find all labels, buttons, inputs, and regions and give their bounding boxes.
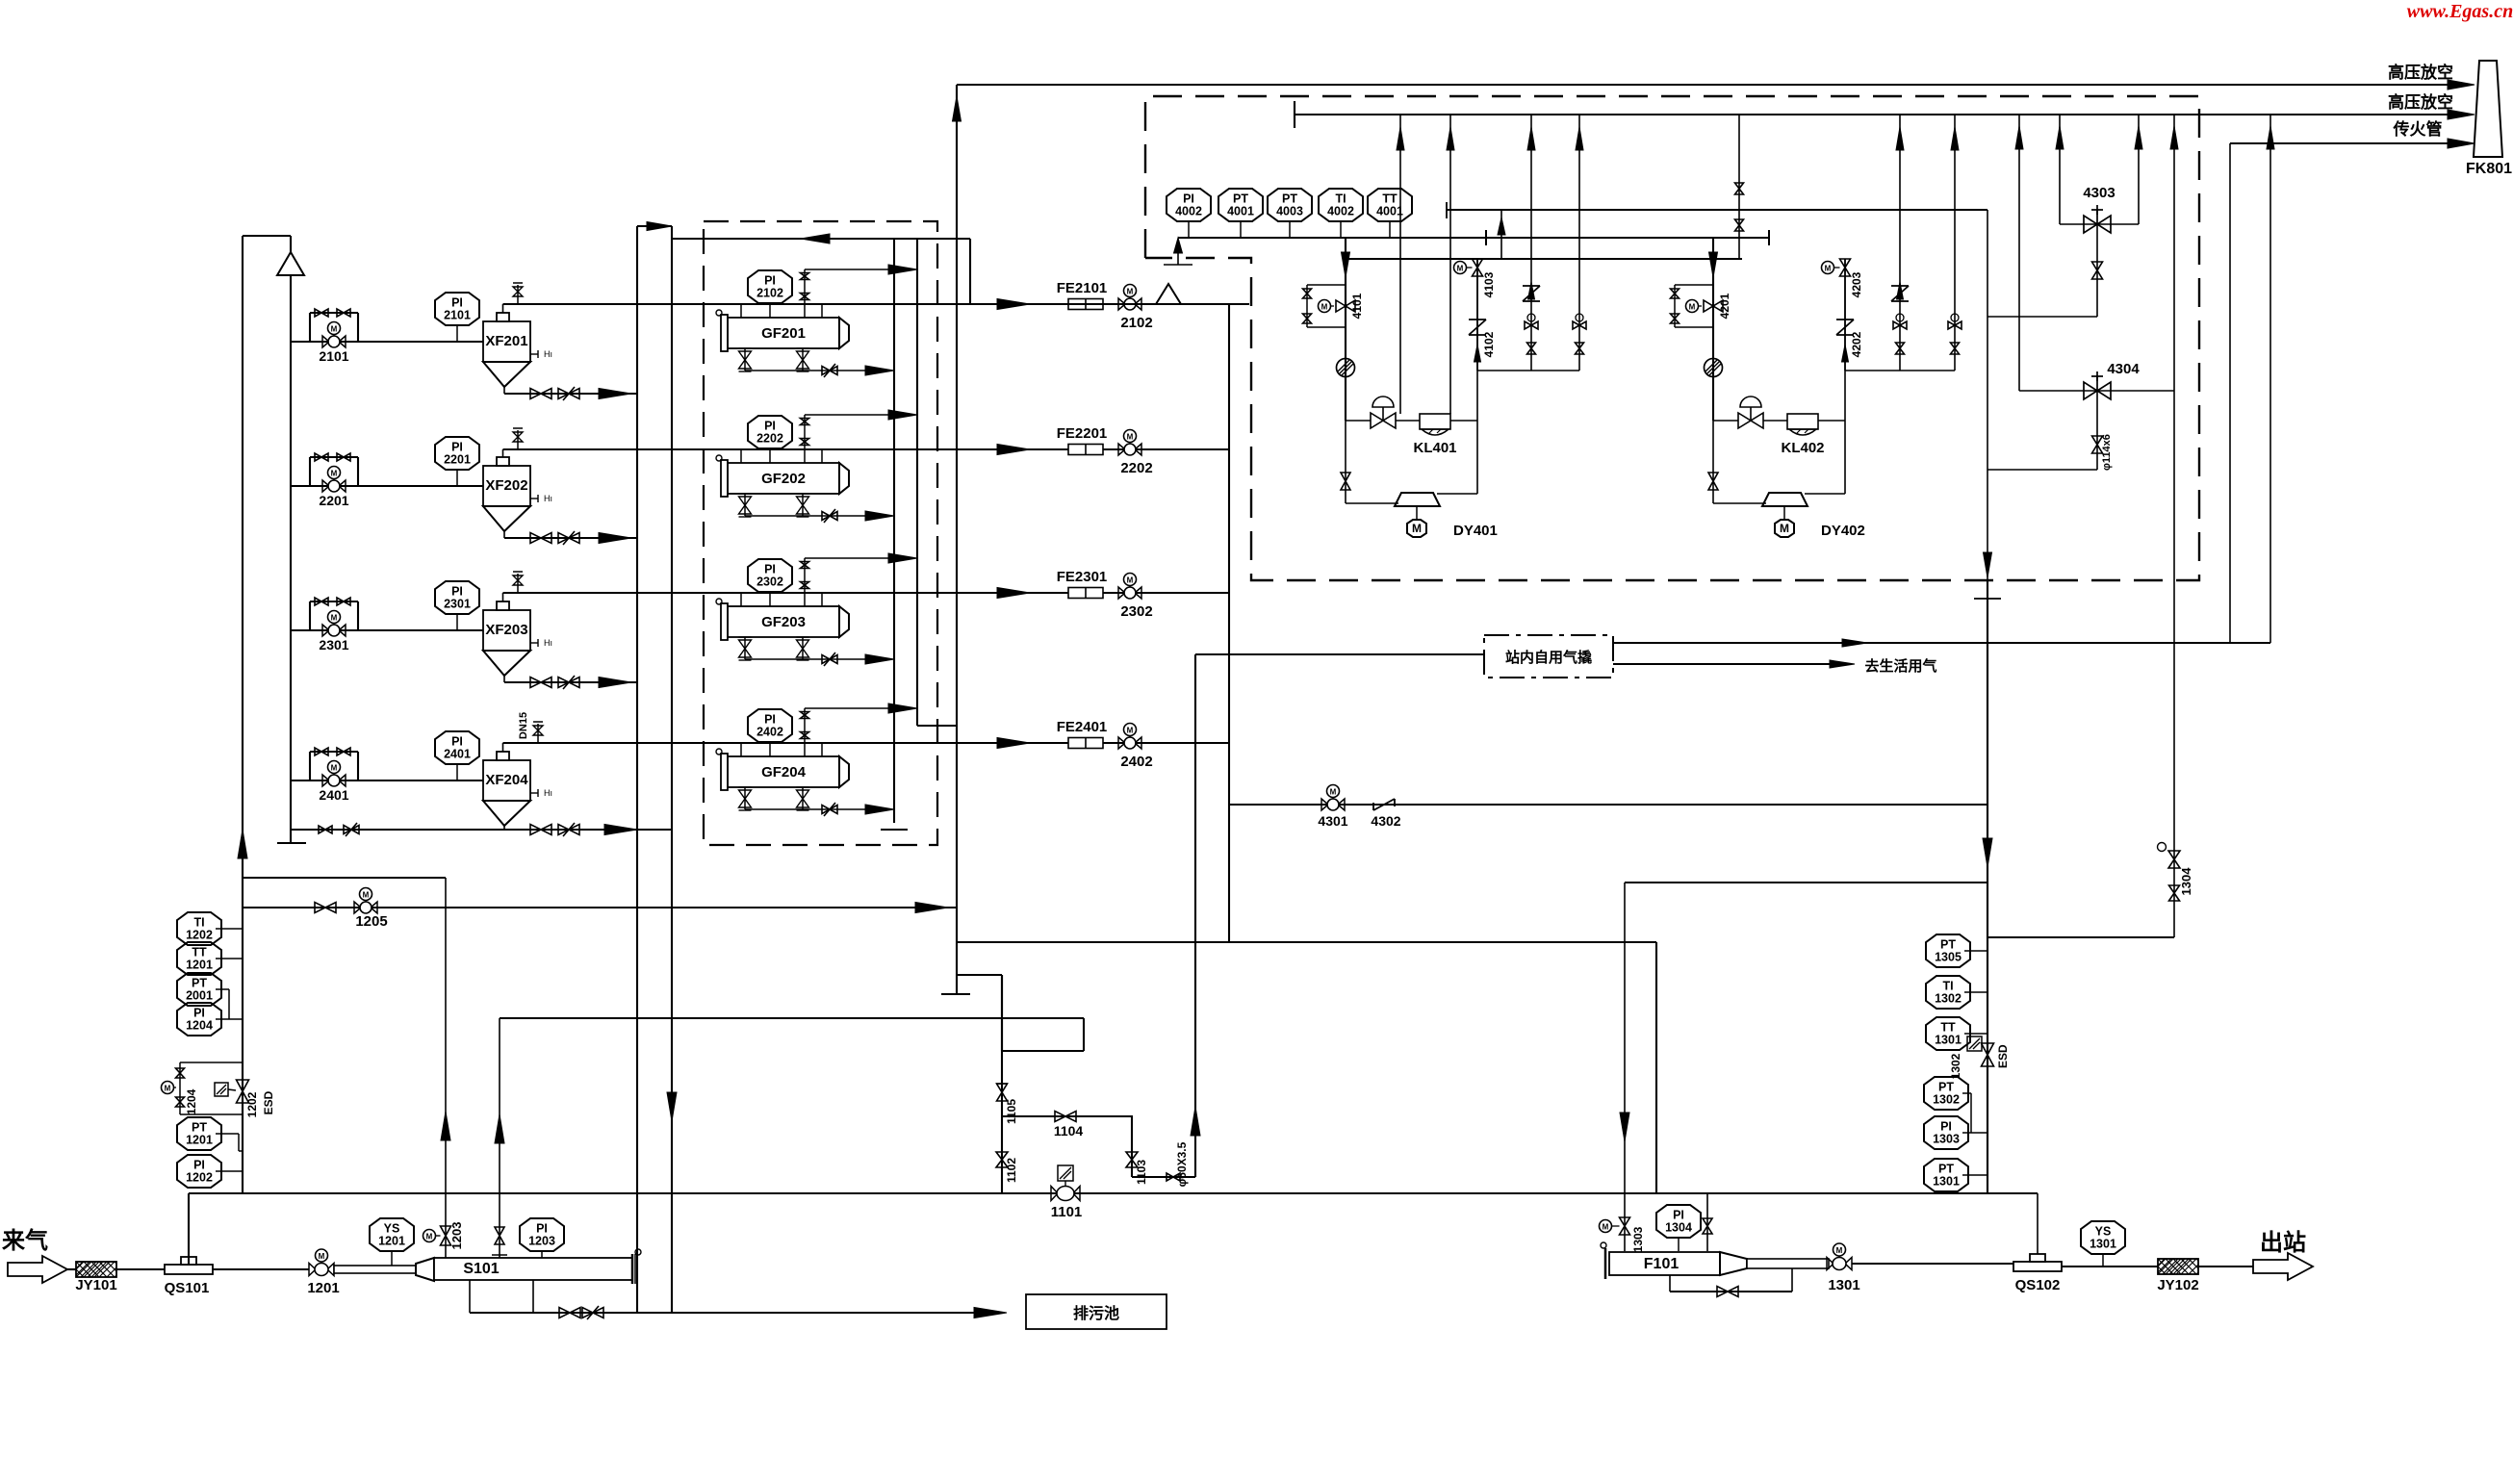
flow arrow row 4 [997,738,1030,749]
regulator bypass 4201 [1675,284,1713,286]
svg-text:M: M [1127,727,1134,735]
svg-text:1202: 1202 [186,929,213,942]
pilot riser x=2317 [2229,143,2231,643]
svg-text:1105: 1105 [1005,1099,1018,1124]
svg-text:2102: 2102 [756,287,783,300]
4303 lower leg [2096,224,2098,317]
train2 relief column [1844,259,1846,421]
svg-text:PI: PI [451,585,463,599]
vent stub valve row 2 [517,430,519,449]
svg-text:TI: TI [1942,980,1953,993]
svg-text:1302: 1302 [1949,1053,1962,1079]
TT 1201 instrument [177,942,221,975]
dashed box heater skid [1145,96,2199,580]
ESD inlet valve 1201 [309,1264,316,1276]
gas heater GF202 [728,463,839,494]
instrument manifold 1204 [180,1062,243,1063]
HP vent line 1 [957,84,2462,86]
gas heater GF201 [728,318,839,348]
filter F101 [1604,1248,1607,1279]
svg-text:FK801: FK801 [2466,161,2512,177]
svg-text:4101: 4101 [1350,293,1364,319]
valve assembly 2401 [309,752,311,780]
skid outlet 1 [1613,642,2270,644]
svg-text:PI: PI [764,563,776,576]
svg-text:www.Egas.cn: www.Egas.cn [2407,1,2513,22]
row 4 feed line from riser [291,780,483,781]
svg-text:4203: 4203 [1850,271,1863,297]
svg-text:4102: 4102 [1482,331,1496,357]
filter separator XF203 [483,610,530,651]
cooler piping [1713,420,1738,422]
XF201 outlet line [502,304,504,313]
svg-text:JY101: JY101 [75,1277,116,1293]
XF203 outlet line [502,593,504,601]
svg-text:1203: 1203 [528,1235,555,1248]
line B regulator header [1346,258,1742,260]
svg-text:4303: 4303 [2083,185,2115,201]
svg-text:M: M [1321,303,1328,312]
bypass line 1104 [1002,1115,1133,1117]
svg-text:2201: 2201 [319,493,348,508]
svg-text:4304: 4304 [2107,361,2140,377]
line QS101 to 1201 [213,1268,309,1270]
XF202 drain line [503,531,505,538]
svg-text:FE2401: FE2401 [1057,719,1108,735]
PI 1204 instrument [177,1003,221,1036]
PI 2301 instrument [435,581,479,614]
svg-text:2101: 2101 [319,348,348,364]
svg-text:去生活用气: 去生活用气 [1864,657,1936,675]
regulator bypass 4101 [1307,284,1346,286]
PI 2201 instrument [435,437,479,470]
GF202 inlet stubs [740,449,742,463]
svg-text:4001: 4001 [1376,205,1403,218]
svg-text:1203: 1203 [449,1222,464,1250]
svg-text:PI: PI [451,441,463,454]
filter separator XF204 [483,760,530,801]
svg-text:M: M [1457,265,1464,273]
svg-text:4001: 4001 [1227,205,1254,218]
bus break caps [1485,230,1487,245]
svg-text:PT: PT [1282,192,1297,206]
svg-text:传火管: 传火管 [2393,119,2443,139]
svg-text:φ114x6: φ114x6 [2101,434,2113,471]
svg-text:M: M [1127,288,1134,296]
valve 4304 bypass [2018,115,2020,391]
svg-text:M: M [1836,1246,1843,1255]
tee filter QS102 [2037,1193,2039,1262]
flow element FE2301 [1068,588,1103,599]
svg-text:FE2101: FE2101 [1057,280,1108,296]
svg-text:KL401: KL401 [1413,440,1456,456]
PT 4003 instrument [1268,189,1312,221]
S101 drain [469,1280,471,1313]
svg-text:TT: TT [1382,192,1398,206]
line F101 to QS102 [1852,1263,2013,1265]
riser A x=252 [242,236,244,1193]
control valve 2102 [1118,298,1125,310]
svg-text:YS: YS [384,1222,400,1236]
svg-text:ESD: ESD [1996,1044,2010,1068]
svg-text:PT: PT [1938,1163,1954,1176]
PI 2202 instrument [748,416,792,448]
svg-text:QS101: QS101 [165,1280,210,1296]
svg-text:DY401: DY401 [1453,523,1498,539]
svg-text:M: M [426,1233,433,1241]
PI 2302 instrument [748,559,792,592]
blower loop [1712,368,1714,503]
svg-text:M: M [1825,265,1832,273]
outlet arrow 出站 [2198,1266,2253,1267]
svg-text:1304: 1304 [2179,867,2193,896]
svg-text:M: M [1127,576,1134,585]
GF vent collector riser x=953 [916,239,918,726]
S101 second riser [499,1018,500,1258]
TI 1302 instrument [1926,976,1970,1009]
svg-text:1305: 1305 [1935,951,1962,964]
outlet ESD valve 1301 [1827,1258,1833,1270]
svg-text:站内自用气撬: 站内自用气撬 [1505,649,1592,666]
train1 relief column [1476,259,1478,421]
heater instrument bus [1178,237,1486,239]
riser x=1721 [1655,942,1657,1193]
relief 4102 [1469,319,1486,320]
inner return line [672,238,970,240]
svg-text:S101: S101 [463,1261,499,1277]
svg-text:GF204: GF204 [761,764,807,780]
cooler feed valve KL401 [1371,413,1383,428]
ESD station valve 1101 [1058,1165,1073,1181]
svg-text:XF202: XF202 [485,477,527,494]
svg-text:PI: PI [193,1007,205,1020]
PT 2001 instrument [177,973,221,1006]
XF204 outlet line [502,743,504,752]
flow arrow row 1 [997,299,1030,310]
line to QS101 [116,1268,165,1270]
vent stub valve row 1 [517,285,519,304]
svg-text:4103: 4103 [1482,271,1496,297]
QS101 drop [188,1193,190,1265]
valve assembly 2101 [309,313,311,342]
PI 4002 instrument [1167,189,1211,221]
PI 2102 instrument [748,270,792,303]
svg-text:PT: PT [192,977,207,990]
gas heater GF204 [728,756,839,787]
valve 4303 bypass [2059,115,2061,224]
svg-text:4202: 4202 [1850,331,1863,357]
flare riser lower leg [956,908,958,975]
svg-text:PI: PI [193,1159,205,1172]
riser B x=302 with vent [290,236,292,843]
blower DY402 [1762,493,1808,506]
svg-text:1201: 1201 [378,1235,405,1248]
svg-text:1303: 1303 [1631,1226,1645,1252]
YS 1201 instrument [370,1218,414,1251]
right column x=2066 [1987,210,1988,580]
svg-text:KL402: KL402 [1781,440,1824,456]
svg-text:M: M [1780,522,1789,535]
vent stub valve row 3 [517,574,519,593]
svg-text:QS102: QS102 [2015,1277,2061,1293]
svg-text:M: M [165,1085,171,1093]
GF201 vent valves [804,269,806,318]
row 3 feed line from riser [291,629,483,631]
drain pool box 排污池 [1026,1294,1167,1329]
svg-text:1301: 1301 [1935,1034,1962,1047]
svg-text:PI: PI [1673,1209,1684,1222]
valve 1203 on S101 vent riser [445,878,447,1258]
svg-text:1301: 1301 [1933,1175,1960,1189]
svg-text:JY102: JY102 [2157,1277,2198,1293]
flow element FE2101 [1068,299,1103,310]
control valve 2302 [1118,587,1125,599]
svg-text:4201: 4201 [1718,293,1731,319]
flow arrow row 2 [997,445,1030,455]
svg-text:1202: 1202 [186,1171,213,1185]
station gas line y=836 [1229,804,1987,806]
flow element FE2201 [1068,445,1103,455]
svg-text:2402: 2402 [756,726,783,739]
svg-text:GF201: GF201 [761,325,806,342]
train2 vent manifold [1845,370,1955,371]
svg-text:Hı: Hı [544,494,552,503]
valve 1304 branch [1987,936,2174,938]
XF204 drain line [503,826,505,830]
svg-text:2101: 2101 [444,309,471,322]
svg-text:M: M [363,891,370,900]
filter separator XF201 [483,321,530,362]
svg-text:PI: PI [451,296,463,310]
line QS102 to JY102 [2062,1266,2158,1267]
XF202 outlet line [502,449,504,457]
GF203 vent valves [804,558,806,606]
svg-text:PI: PI [764,274,776,288]
svg-text:XF201: XF201 [485,333,527,349]
svg-text:XF204: XF204 [485,772,528,788]
svg-text:ESD: ESD [262,1090,275,1114]
svg-text:来气: 来气 [2,1227,48,1254]
S101 equalizing line y=1058 [500,1017,1084,1019]
control valve 2402 [1118,737,1125,749]
svg-text:4301: 4301 [1318,813,1347,829]
TT 1301 instrument [1926,1017,1970,1050]
svg-text:PI: PI [764,713,776,727]
svg-text:F101: F101 [1644,1256,1680,1272]
TI 1202 instrument [177,912,221,945]
svg-text:2301: 2301 [444,598,471,611]
insulating joint JY102 [2158,1259,2198,1274]
blower loop [1345,368,1346,503]
bypass 1102 [1001,975,1003,1193]
PI 1304 instrument [1656,1205,1701,1238]
main flare riser x=994 [956,85,958,908]
station gas takeoff [1132,1176,1195,1178]
svg-text:1301: 1301 [2090,1238,2116,1251]
drop to F101 [1624,883,1626,1251]
YS 1301 instrument [2081,1221,2125,1254]
svg-text:PT: PT [1938,1081,1954,1094]
svg-text:φ60X3.5: φ60X3.5 [1175,1141,1189,1187]
svg-text:1302: 1302 [1935,992,1962,1006]
svg-text:M: M [1689,303,1696,312]
flare stack FK801 [2474,61,2502,157]
svg-text:Hı: Hı [544,788,552,798]
TT 4001 instrument [1368,189,1412,221]
svg-text:1104: 1104 [1054,1123,1084,1139]
control valve 2202 [1118,444,1125,455]
pilot gas line [2230,142,2462,144]
GF204 inlet stubs [740,743,742,756]
F101 drain [1669,1275,1671,1292]
skid outlet 2 去生活用气 [1613,663,1843,665]
train1 vent manifold [1477,370,1579,371]
blower DY401 [1395,493,1440,506]
svg-text:2201: 2201 [444,453,471,467]
riser x=1807 with gates [1738,115,1740,259]
svg-text:1204: 1204 [185,1088,198,1114]
PI 2401 instrument [435,731,479,764]
vent riser [1899,115,1901,371]
GF203 inlet stubs [740,593,742,606]
riser to station-use skid [1194,654,1196,1177]
dashed box GF skid [704,221,937,845]
svg-text:1304: 1304 [1665,1221,1692,1235]
row 2 feed line from riser [291,485,483,487]
ESD valve 1202 [237,1080,249,1103]
svg-text:GF203: GF203 [761,614,806,630]
filter separator XF202 [483,466,530,506]
svg-text:YS: YS [2095,1225,2112,1239]
valve assembly 2301 [309,601,311,630]
cooler feed valve KL402 [1738,413,1751,428]
valve assembly 2201 [309,457,311,486]
svg-text:高压放空: 高压放空 [2388,92,2453,112]
TI 4002 instrument [1319,189,1363,221]
gate on F101 second tap [1703,1218,1712,1234]
PT 1301 instrument [1924,1159,1968,1191]
svg-text:PI: PI [764,420,776,433]
burner train drop 4201 [1712,239,1714,421]
GF203 drain valves [744,637,746,659]
vent riser [1954,115,1956,371]
check valve 4302 [1373,799,1395,810]
PI 1202 instrument [177,1155,221,1188]
cooler piping [1346,420,1371,422]
PT 1305 instrument [1926,934,1970,967]
valve 1303 on F101 [1620,1217,1630,1235]
PI 2101 instrument [435,293,479,325]
svg-text:1301: 1301 [1828,1277,1859,1293]
GF202 drain valves [744,494,746,516]
svg-text:1303: 1303 [1933,1133,1960,1146]
station self-use skid box 站内自用气撬 [1484,635,1613,678]
XF203 drain line [503,676,505,682]
svg-text:1204: 1204 [186,1019,213,1033]
heater risers to HP vent [1399,115,1401,414]
GF201 drain valves [744,348,746,371]
svg-text:4302: 4302 [1371,813,1400,829]
PT 1201 instrument [177,1117,221,1150]
svg-text:PI: PI [536,1222,548,1236]
valve 1105 [997,1084,1008,1101]
4304 lower leg φ114x6 [2096,391,2098,470]
PI 2402 instrument [748,709,792,742]
relief 4202 [1836,319,1854,320]
svg-text:GF202: GF202 [761,471,806,487]
insulating joint JY101 [67,1268,82,1270]
svg-text:2302: 2302 [1120,603,1152,620]
svg-text:M: M [1603,1223,1609,1232]
svg-text:M: M [331,614,338,623]
pilot line y=218 [1446,202,1448,218]
svg-text:1102: 1102 [1005,1158,1018,1183]
svg-text:2001: 2001 [186,989,213,1003]
svg-text:2401: 2401 [319,787,348,803]
valve 4103 [1476,259,1478,371]
svg-text:M: M [1127,433,1134,442]
GF204 vent valves [804,708,806,756]
vent stub valve row 4 [537,724,539,743]
flame arrestor circle 4201 [1705,359,1723,377]
svg-text:高压放空: 高压放空 [2388,63,2453,82]
svg-text:M: M [319,1252,325,1261]
GF204 drain valves [744,787,746,809]
drain riser x=698 to drain pool [671,226,673,1313]
row 1 feed line from riser [291,341,483,343]
air cooler KL402 [1787,414,1818,429]
vent riser [1530,115,1532,371]
svg-text:TI: TI [193,916,204,930]
svg-text:M: M [331,470,338,478]
skid left feed [1195,653,1484,655]
riser x=2359 [2269,115,2271,643]
svg-text:2202: 2202 [1120,460,1152,476]
svg-text:2401: 2401 [444,748,471,761]
row collector vertical x=1277 [1228,304,1230,942]
line B right of bus [1486,237,1769,239]
flame arrestor circle 4101 [1337,359,1355,377]
svg-text:4003: 4003 [1276,205,1303,218]
valve 4301 [1321,799,1328,810]
flow arrow row 3 [997,588,1030,599]
svg-text:1302: 1302 [1933,1093,1960,1107]
ESD valve 1302 [1982,1043,1994,1066]
svg-text:2102: 2102 [1120,315,1152,331]
left vent riser pair bridge [243,235,291,237]
svg-text:1205: 1205 [355,913,387,930]
svg-text:2301: 2301 [319,637,348,652]
svg-text:Hı: Hı [544,349,552,359]
PI 1303 instrument [1924,1116,1968,1149]
branch line y=912 [243,877,445,879]
flame arrestor [957,303,1249,305]
gas heater GF203 [728,606,839,637]
valve 1103 [1131,1116,1133,1177]
svg-text:XF203: XF203 [485,622,527,638]
svg-text:PI: PI [1183,192,1194,206]
drain riser x=662 [636,226,638,1313]
S101 separator [334,1266,416,1273]
svg-text:1201: 1201 [186,1134,213,1147]
GF202 vent valves [804,415,806,463]
svg-text:4002: 4002 [1175,205,1202,218]
svg-text:M: M [331,764,338,773]
svg-text:1201: 1201 [307,1280,339,1296]
drain header to pool [470,1312,1001,1314]
line y=917 [1625,882,1987,883]
svg-text:PT: PT [1940,938,1956,952]
